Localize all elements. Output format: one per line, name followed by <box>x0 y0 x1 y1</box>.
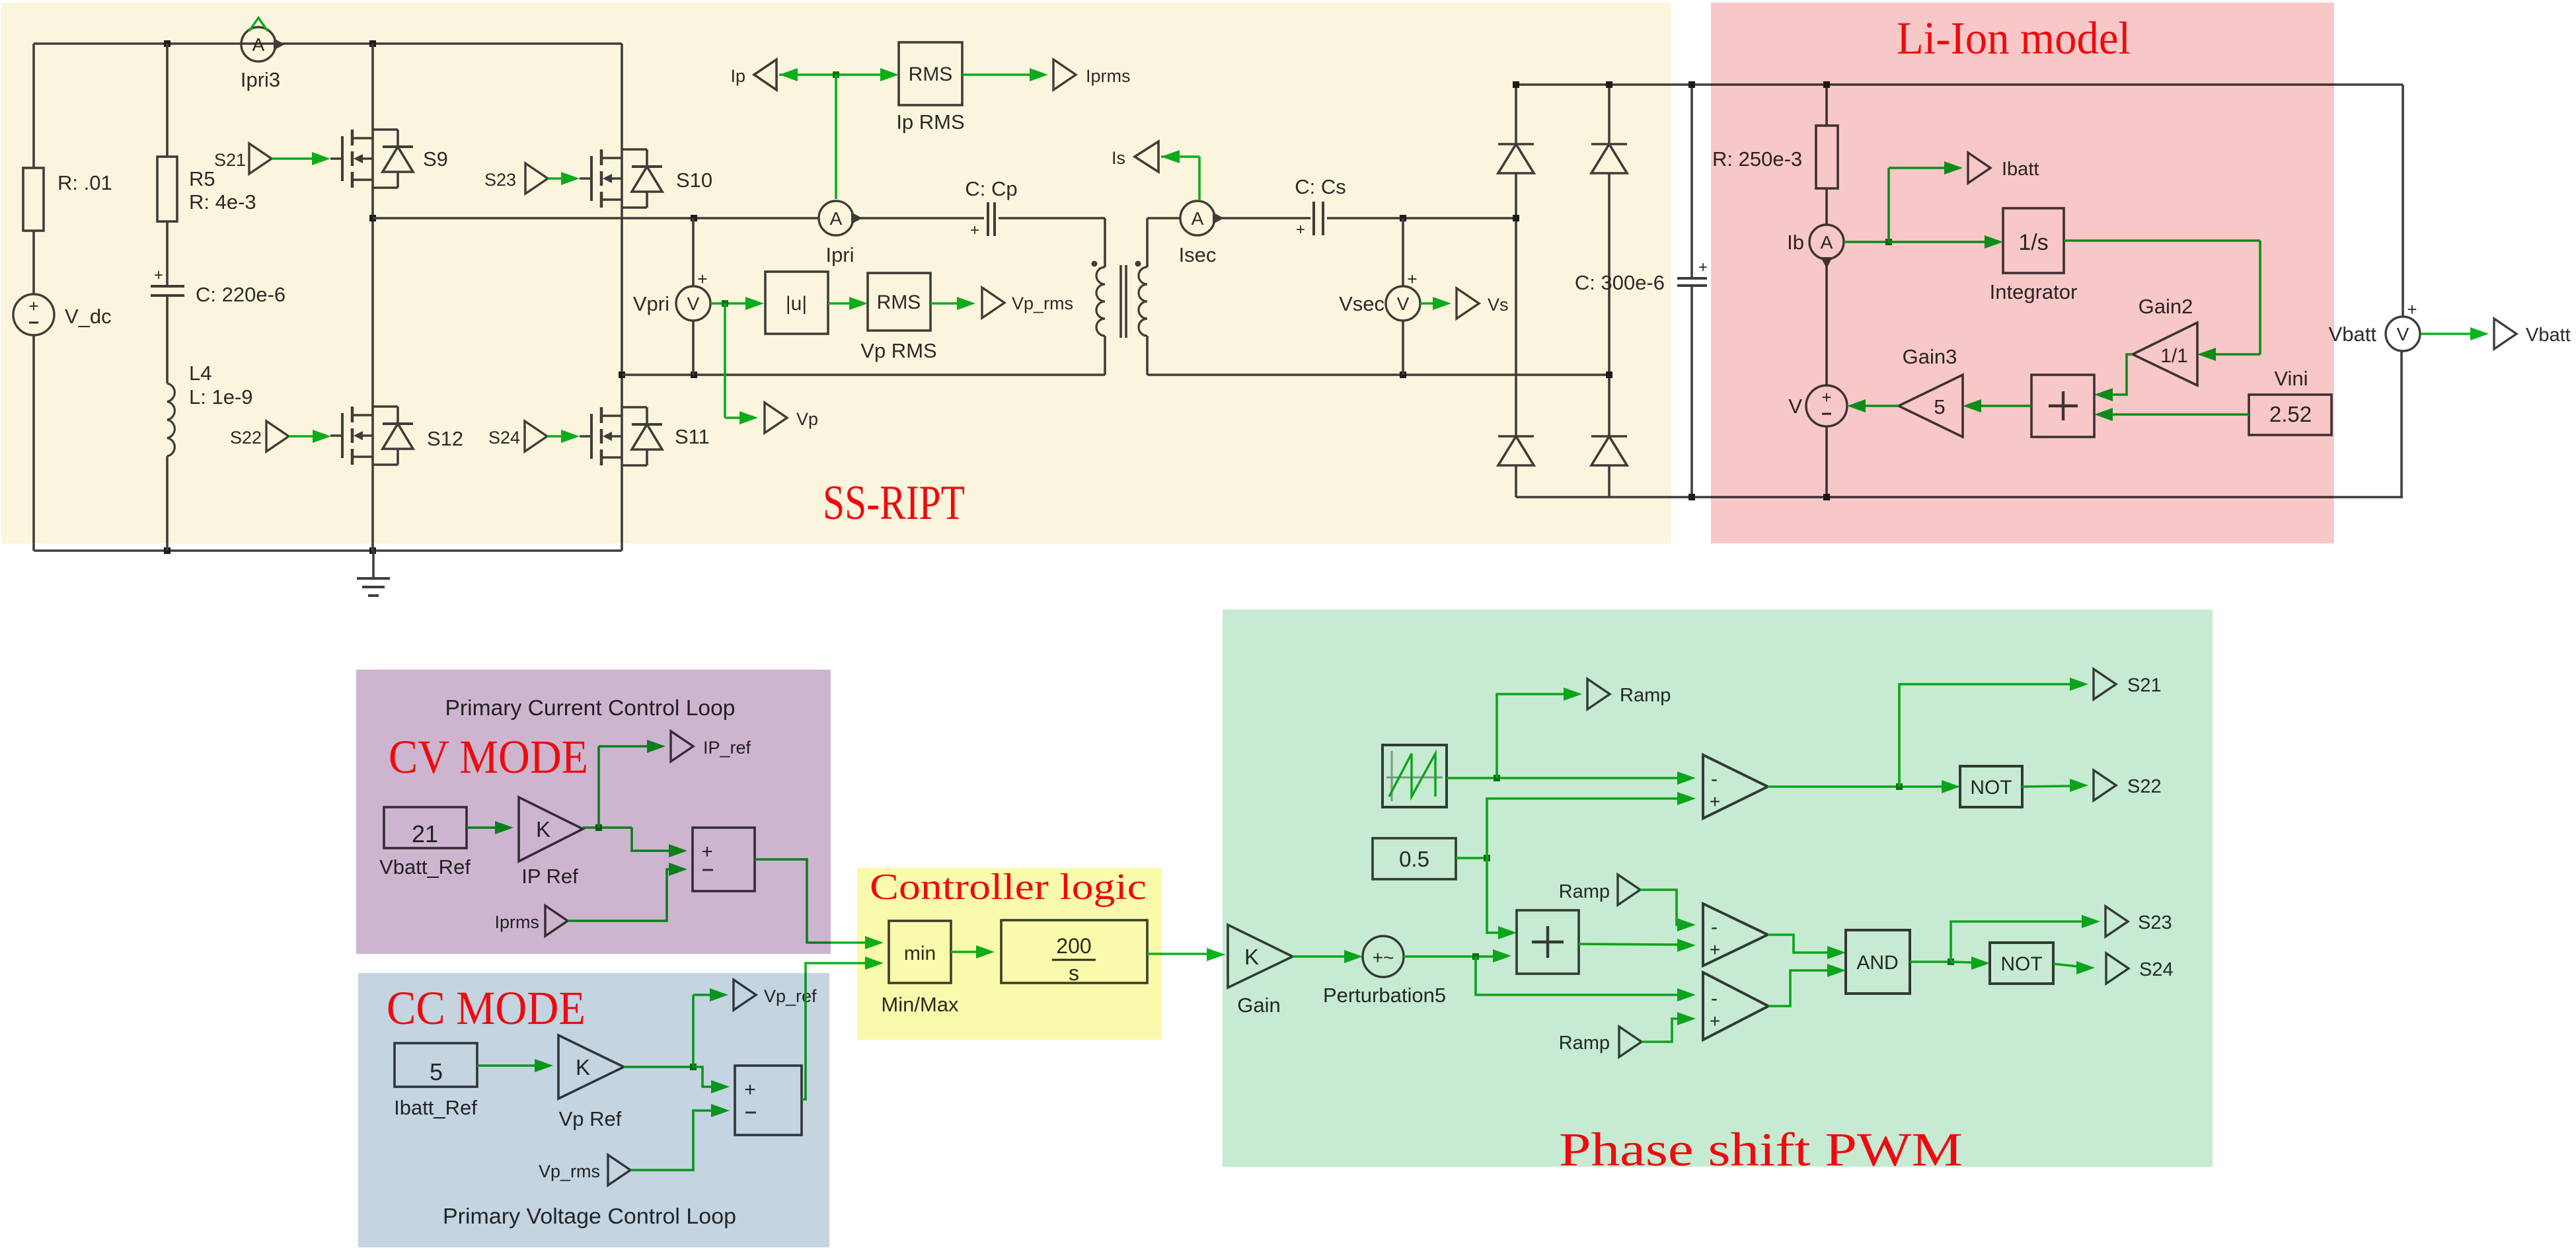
wire K out CC <box>624 988 730 1093</box>
label L4 <box>189 362 253 409</box>
label Gain3 <box>1903 345 1957 368</box>
gain IP Ref K <box>519 797 583 861</box>
wire battery plus <box>2402 85 2404 316</box>
capacitor C: 300e-6 <box>1677 85 1708 497</box>
label Primary Current Control Loop <box>445 695 736 720</box>
wire RMS to Vp_rms <box>930 297 975 310</box>
svg-text:SS-RIPT: SS-RIPT <box>823 476 965 530</box>
node junction S10-S11 midpoint <box>619 372 625 378</box>
region PWM green overlay <box>1223 609 2213 1167</box>
wire Ib to V <box>1825 259 1828 385</box>
label IP Ref <box>521 865 578 888</box>
node junction Vsec bottom <box>1400 372 1406 378</box>
wire Vp_rms to sum <box>630 1104 730 1170</box>
wire min to 200s <box>951 945 995 959</box>
svg-text:Controller logic: Controller logic <box>870 867 1147 908</box>
label Vbatt_Ref <box>379 855 471 879</box>
node junction bridge TL <box>1513 81 1519 88</box>
block transfer 200/s <box>1001 920 1147 985</box>
region CV purple overlay <box>356 670 831 954</box>
wire sum to Gain3 <box>1963 399 2031 412</box>
wire Gain3 to V <box>1847 399 1899 412</box>
node junction bridge TR <box>1606 81 1612 88</box>
wire Is tap <box>1161 150 1199 200</box>
gain Gain K <box>1228 925 1293 988</box>
wire battery branch top <box>1825 85 1828 126</box>
wire Ramp2 to comp2 <box>1640 890 1696 931</box>
label Vbatt left <box>2329 323 2377 346</box>
wire 1/s to Gain2 <box>2064 241 2260 361</box>
region Li-Ion pink overlay <box>1711 3 2334 543</box>
diode D2 <box>1591 85 1627 375</box>
node junction batt top <box>1823 81 1830 88</box>
label Ibatt <box>2002 159 2039 180</box>
block sum CC <box>735 1066 802 1135</box>
ground <box>357 551 390 596</box>
svg-text:Vbatt: Vbatt <box>2329 323 2377 346</box>
wire Vbatt to port <box>2421 327 2489 340</box>
block abs |u| <box>765 272 828 334</box>
port S22 out <box>2094 770 2116 801</box>
label S21 <box>214 150 246 170</box>
svg-text:CV MODE: CV MODE <box>389 730 588 783</box>
label Vp_rms in <box>539 1161 600 1181</box>
block constant 0.5 <box>1373 838 1456 879</box>
node junction cap bottom <box>1688 494 1695 500</box>
label Min/Max <box>881 993 959 1016</box>
wire RMS to Iprms <box>962 68 1048 81</box>
block NOT1 <box>1960 766 2022 807</box>
wire Cp to xfmr <box>999 217 1105 219</box>
label Vp_rms <box>1012 294 1073 313</box>
label S22 out <box>2127 776 2162 797</box>
comparator comp3 <box>1703 972 1768 1040</box>
wire 21 to K <box>467 821 513 834</box>
label S21 out <box>2127 675 2162 696</box>
wire NOT2 to S24 <box>2053 961 2095 974</box>
block sum battery <box>2031 375 2094 437</box>
wire Isec to Cs <box>1215 217 1310 219</box>
svg-text:V: V <box>2397 324 2409 344</box>
label S10 <box>676 169 712 192</box>
block constant Ibatt_Ref 5 <box>395 1043 477 1087</box>
label Iprms in <box>495 912 540 932</box>
wire R to Ib <box>1825 188 1828 225</box>
wire sawtooth out <box>1447 687 1696 785</box>
node junction bridge MR <box>1606 372 1612 378</box>
inductor L4 <box>167 383 174 456</box>
wire S23 gate drive <box>548 172 580 185</box>
wire comp3 out <box>1768 964 1846 1006</box>
transformer <box>1092 218 1148 375</box>
port S24 <box>525 421 547 451</box>
label IP_ref <box>703 738 751 758</box>
block constant Vbatt_Ref 21 <box>384 807 467 848</box>
wire Cs to bridge <box>1327 217 1516 219</box>
transistor S12 <box>330 218 413 551</box>
capacitor C: Cs <box>1296 202 1323 239</box>
label Vp Ref <box>559 1107 622 1130</box>
wire top rail <box>34 42 622 45</box>
label Ramp1 <box>1620 685 1671 706</box>
voltmeter Vpri <box>676 218 710 375</box>
label S12 <box>427 427 463 450</box>
wire bridge bottom rail <box>1516 496 2403 498</box>
block constant Vini 2.52 <box>2249 395 2331 435</box>
wire Ipri to Cp <box>853 217 984 219</box>
label V <box>1788 395 1802 418</box>
wire ground rail <box>34 549 622 552</box>
region SS-RIPT cream overlay <box>1 3 1671 543</box>
source Perturbation5 <box>1363 936 1404 977</box>
wire R5 branch top <box>166 44 169 157</box>
ammeter Isec <box>1180 201 1224 235</box>
port Iprms <box>1053 59 1076 90</box>
wire sum PWM out <box>1579 939 1696 952</box>
port S23 <box>525 163 548 194</box>
diode D4 <box>1591 375 1627 497</box>
port Ip <box>754 59 777 90</box>
node junction Vsec top <box>1400 215 1406 221</box>
label Ramp3 <box>1559 1033 1610 1054</box>
port Iprms in <box>545 906 568 936</box>
node junction S9-S12 midpoint <box>369 215 376 221</box>
block sum CV <box>693 828 755 891</box>
port Vp_ref <box>734 980 756 1010</box>
label Vpri <box>633 292 669 315</box>
ammeter Ib <box>1809 225 1844 268</box>
node junction top R5 <box>164 40 170 47</box>
label Ip RMS <box>896 110 964 134</box>
label Ibatt_Ref <box>394 1096 477 1119</box>
capacitor C: Cp <box>970 202 995 239</box>
label C 300e-6 <box>1575 271 1665 294</box>
svg-text:CC MODE: CC MODE <box>387 982 586 1035</box>
wire S21 gate drive <box>272 152 330 165</box>
label Gain2 <box>2139 295 2193 318</box>
transistor S10 <box>580 44 662 375</box>
label Ib <box>1787 231 1804 254</box>
wire 0.5 out <box>1456 792 1696 939</box>
block integrator 1/s <box>2003 208 2064 273</box>
wire Ib tap <box>1844 161 2003 249</box>
transistor S11 <box>580 375 662 551</box>
label CC title <box>443 1204 736 1228</box>
label Ip <box>730 66 745 86</box>
port Vp <box>765 403 787 433</box>
port Vbatt <box>2494 319 2517 349</box>
node junction batt bottom <box>1823 494 1830 500</box>
node junction Vpri bottom <box>691 372 697 378</box>
label S24 out <box>2139 959 2174 980</box>
gain Gain3 <box>1899 375 1963 437</box>
wire S22 gate drive <box>289 430 331 443</box>
label Vp <box>796 409 818 429</box>
label Vini <box>2274 367 2308 390</box>
region CC blue overlay <box>358 973 829 1247</box>
wire comp1 out <box>1768 678 2088 793</box>
wire S24 gate drive <box>547 430 580 443</box>
comparator comp2 <box>1703 904 1768 966</box>
wire comp2 out <box>1768 935 1846 959</box>
block AND <box>1846 930 1910 994</box>
label Vp_ref <box>764 986 817 1006</box>
gain Gain2 <box>2133 323 2197 385</box>
comparator comp1 <box>1703 755 1768 818</box>
block sawtooth generator <box>1383 745 1447 807</box>
wire left column top <box>32 44 35 168</box>
label Integrator <box>1990 280 2078 303</box>
svg-text:+: + <box>1698 258 1708 276</box>
port S24 out <box>2106 953 2129 984</box>
label Vbatt right <box>2526 325 2571 346</box>
label S23 out <box>2138 912 2172 933</box>
wire Vpri green tap <box>710 297 764 424</box>
node junction cap top <box>1688 81 1695 88</box>
label S24 <box>488 428 520 448</box>
wire C to L4 <box>166 295 169 383</box>
label R 250e-3 <box>1712 147 1802 171</box>
port Vp_rms <box>982 288 1004 318</box>
port S22 <box>266 421 289 451</box>
block Ip RMS <box>899 42 962 105</box>
wire left column mid <box>32 231 35 294</box>
wire V to rail <box>1825 426 1828 497</box>
port Vs <box>1457 288 1479 319</box>
label C Cs <box>1295 175 1346 198</box>
wire K out CV <box>583 740 687 857</box>
wire Ramp3 to comp3 <box>1642 1012 1696 1042</box>
port Ramp3 <box>1619 1027 1642 1057</box>
label C Cp <box>965 177 1017 200</box>
wire Perturbation to sum <box>1404 949 1696 1001</box>
wire u to RMS <box>828 297 868 310</box>
node junction bridge ML <box>1513 215 1519 221</box>
label Ipri <box>825 243 854 266</box>
wire secondary bottom rail <box>1147 373 1609 376</box>
label C 220e-6 <box>196 283 285 306</box>
port S23 out <box>2105 906 2128 937</box>
node junction top S9 leg <box>369 40 376 47</box>
label S23 <box>484 170 516 190</box>
wire 200s to Gain <box>1147 948 1225 961</box>
resistor R: 250e-3 <box>1816 126 1838 188</box>
source V_dc <box>13 294 54 335</box>
label Ramp2 <box>1559 881 1610 902</box>
diode D1 <box>1498 85 1534 218</box>
svg-text:+: + <box>2407 299 2417 319</box>
block Vp RMS <box>868 273 930 331</box>
label Vs <box>1488 295 1509 315</box>
wire CV sum out <box>755 859 884 949</box>
port IP_ref <box>671 731 693 762</box>
wire secondary top rail <box>1147 217 1180 219</box>
voltmeter Vbatt <box>2386 299 2420 351</box>
wire L4 to gnd <box>166 456 169 551</box>
wire primary top rail <box>373 217 819 219</box>
block Min/Max <box>889 921 951 983</box>
label S11 <box>675 425 710 448</box>
node junction gnd R5 <box>164 547 170 554</box>
port Ibatt <box>1968 153 1990 183</box>
label Isec <box>1179 243 1217 266</box>
wire Iprms to sum <box>568 863 687 921</box>
label Vsec <box>1339 292 1384 315</box>
wire Gain2 to sum <box>2094 354 2133 401</box>
port Vp_rms in <box>608 1155 630 1185</box>
label R5 <box>189 167 256 214</box>
diode D3 <box>1498 218 1534 497</box>
gain Vp Ref K <box>558 1035 624 1099</box>
wire bridge top rail <box>1516 83 2403 86</box>
svg-text:Phase shift PWM: Phase shift PWM <box>1559 1123 1963 1176</box>
block sum PWM <box>1517 910 1579 974</box>
port Is <box>1135 141 1158 172</box>
wire Vsec to Vs <box>1420 297 1451 310</box>
capacitor C: 220e-6 <box>151 266 184 295</box>
port S21 out <box>2094 669 2116 699</box>
label V_dc <box>65 305 112 328</box>
label Ipri3 <box>241 68 280 91</box>
wire primary bottom rail <box>622 373 1105 376</box>
svg-text:Li-Ion model: Li-Ion model <box>1897 13 2131 64</box>
port Ramp1 <box>1587 679 1610 709</box>
wire AND out <box>1910 915 2100 970</box>
port S21 <box>249 143 272 174</box>
ammeter Ipri3 <box>241 18 285 61</box>
source V battery <box>1806 385 1847 426</box>
label Is <box>1112 148 1125 168</box>
wire Vini to sum <box>2094 408 2249 421</box>
block NOT2 <box>1990 943 2053 984</box>
node junction gnd S12 <box>369 547 376 554</box>
label R .01 <box>57 171 112 194</box>
wire Ip rms tap <box>779 68 899 199</box>
region Controller yellow overlay <box>857 868 1162 1040</box>
wire CC sum out <box>802 957 884 1099</box>
resistor R: .01 <box>23 168 44 231</box>
port Ramp2 <box>1618 875 1640 905</box>
node junction Vpri top <box>691 215 697 221</box>
wire R5 to C <box>166 221 169 286</box>
wire NOT1 to S22 <box>2022 779 2088 792</box>
voltmeter Vsec <box>1386 218 1420 375</box>
label Perturbation5 <box>1323 984 1446 1007</box>
label Iprms <box>1086 66 1131 86</box>
resistor R5 <box>157 157 177 221</box>
wire battery minus <box>2400 352 2403 497</box>
label S22 <box>230 428 262 448</box>
wire 5 to K <box>477 1059 553 1072</box>
ammeter Ipri <box>819 201 862 235</box>
wire Gain to Perturbation5 <box>1293 950 1363 963</box>
label S9 <box>423 147 448 171</box>
label Gain <box>1237 994 1280 1017</box>
label Vp RMS <box>860 339 936 362</box>
wire left column bottom <box>32 335 35 551</box>
svg-text:Vbatt: Vbatt <box>2526 325 2571 346</box>
transistor S9 <box>330 44 413 218</box>
